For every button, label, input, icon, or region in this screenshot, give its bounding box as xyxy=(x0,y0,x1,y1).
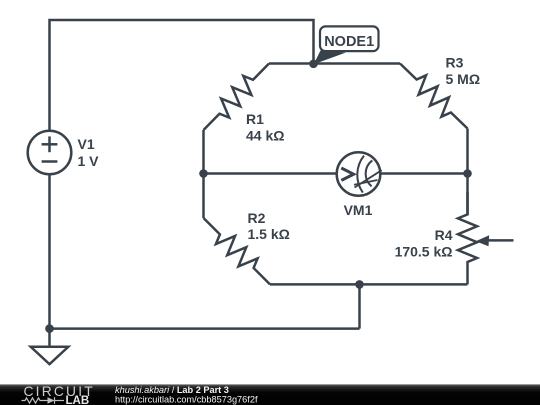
svg-text:5 MΩ: 5 MΩ xyxy=(446,71,481,87)
wire left vertex vertical upper xyxy=(202,130,205,174)
wire bottom drop xyxy=(358,284,361,328)
svg-text:NODE1: NODE1 xyxy=(324,34,374,50)
svg-text:R2: R2 xyxy=(248,210,266,226)
node NODE1 junction xyxy=(309,60,318,69)
svg-text:LAB: LAB xyxy=(66,395,90,405)
svg-text:VM1: VM1 xyxy=(344,202,373,218)
wire ground rail xyxy=(50,327,360,330)
svg-text:1 V: 1 V xyxy=(78,153,100,169)
wire left vertex vertical lower xyxy=(202,174,205,219)
junction bottom xyxy=(355,280,364,289)
voltmeter VM1 xyxy=(337,152,382,196)
resistor R4 (potentiometer) xyxy=(458,192,477,284)
svg-text:http://circuitlab.com/cbb8573g: http://circuitlab.com/cbb8573g76f2f xyxy=(115,394,258,404)
svg-text:R4: R4 xyxy=(435,227,453,243)
svg-text:R3: R3 xyxy=(446,55,464,71)
wire bottom bridge xyxy=(270,283,468,286)
voltage source V1 xyxy=(28,131,72,175)
wire node1 horizontal xyxy=(269,62,400,65)
svg-text:44 kΩ: 44 kΩ xyxy=(246,128,284,144)
node NODE1 label callout xyxy=(314,26,379,64)
R4 wiper arrow xyxy=(476,235,514,246)
svg-text:R1: R1 xyxy=(246,111,264,127)
ground xyxy=(31,329,69,365)
logo squiggle (resistor + diode) xyxy=(22,397,65,404)
svg-text:V1: V1 xyxy=(78,136,95,152)
junction left vertex xyxy=(199,169,208,178)
wire right vertex vertical (junction to R4) xyxy=(466,129,469,216)
resistor R1 xyxy=(204,64,270,131)
svg-text:170.5 kΩ: 170.5 kΩ xyxy=(395,244,453,260)
svg-text:1.5 kΩ: 1.5 kΩ xyxy=(248,226,290,242)
resistor R3 xyxy=(400,64,468,129)
junction right vertex xyxy=(463,169,472,178)
wire middle left: left vertex to VM1 xyxy=(204,172,338,175)
logo CircuitLab xyxy=(24,384,95,405)
resistor R2 xyxy=(204,218,271,284)
junction ground rail xyxy=(45,324,54,333)
wire top: V1 top to NODE1 drop xyxy=(50,20,314,132)
wire middle right: VM1 to right vertex xyxy=(380,172,468,175)
wire V1 bottom to ground rail xyxy=(48,174,51,329)
